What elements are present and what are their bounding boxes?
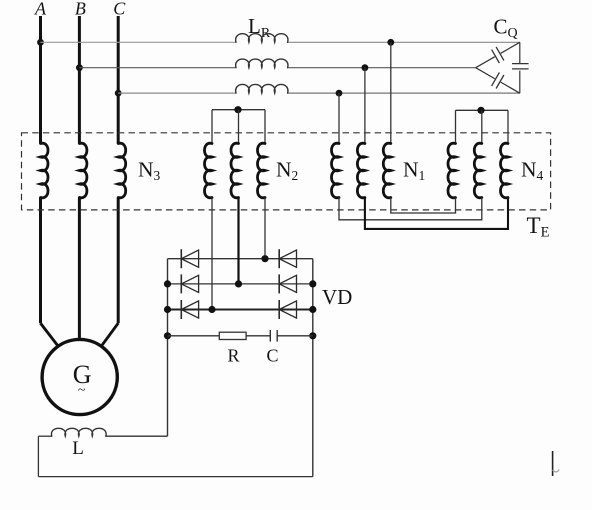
winding N3 phase A	[41, 143, 49, 198]
diode VD5	[180, 300, 182, 319]
wire: link N1w3 to N4w1	[391, 198, 456, 214]
wire: N1 lead 3	[390, 42, 392, 143]
svg-text:~: ~	[78, 383, 86, 398]
wire: N2w3 feed to row1	[264, 198, 266, 259]
node: left rail RC row	[164, 332, 171, 339]
svg-text:B: B	[75, 0, 86, 19]
winding N4 coil 2	[474, 143, 482, 198]
generator G funnel left	[41, 323, 59, 346]
reactor LR phase C	[236, 84, 288, 93]
winding N2 coil 3	[258, 143, 266, 198]
wire: R to C	[246, 335, 270, 337]
node: left rail row2	[164, 280, 171, 287]
winding N2 coil 1	[205, 143, 213, 198]
wire: phase C feeder	[118, 92, 236, 94]
wire: bridge row 3 (bold)	[168, 309, 313, 311]
diode VD1	[180, 249, 182, 268]
diode VD3	[180, 274, 182, 293]
wire: link N1w1 to N4w2	[339, 198, 482, 220]
node: row2 feed	[235, 280, 242, 287]
stray mark	[552, 451, 554, 476]
node: N1 tap on phase C feeder	[336, 90, 343, 97]
svg-text:L: L	[72, 438, 84, 459]
diode VD2	[278, 249, 280, 268]
node: N1 tap on phase A feeder	[387, 39, 394, 46]
wire: L left end down	[38, 435, 51, 437]
capacitor bank CQ lower side	[476, 68, 495, 79]
wire: N4 lead 1 top	[455, 110, 457, 143]
transformer TE dashed enclosure	[22, 133, 551, 210]
node: right rail row3	[309, 306, 316, 313]
wire: left rail to L	[106, 435, 168, 437]
winding N1 coil 1	[332, 143, 340, 198]
winding N1 coil 3	[383, 143, 391, 198]
node: right rail RC row	[309, 332, 316, 339]
generator G funnel right	[101, 323, 118, 346]
capacitor C	[269, 330, 271, 342]
winding N4 coil 1	[448, 143, 456, 198]
winding N2 coil 2	[231, 143, 239, 198]
capacitor bank CQ right side	[519, 42, 521, 63]
capacitor bank CQ triangle upper side	[476, 57, 495, 68]
wire: C to right rail	[277, 335, 313, 337]
wire: bridge row 2	[168, 283, 313, 285]
wire: bottom return	[38, 476, 312, 478]
svg-text:C: C	[266, 346, 278, 366]
phase bus C vertical	[117, 16, 120, 144]
reactor LR phase A	[236, 34, 288, 43]
wire: bridge left rail	[167, 259, 169, 437]
phase bus B vertical	[78, 16, 81, 144]
node: right rail row2	[309, 280, 316, 287]
svg-text:C: C	[113, 0, 126, 19]
wire: bridge row 1	[168, 258, 313, 260]
wire: N2 lead 2 top	[238, 110, 240, 144]
wire: N4 lead 3 top	[507, 110, 509, 143]
svg-text:R: R	[227, 346, 239, 366]
wire: phase A feeder	[41, 41, 237, 43]
winding N3 phase B	[79, 143, 87, 198]
wire: N2 star bar	[212, 109, 265, 111]
wire: N1 lead 1	[338, 93, 340, 143]
wire: N1 lead 2	[364, 68, 366, 144]
node: row3 feed	[208, 306, 215, 313]
wire: N2 lead 1 top	[211, 110, 213, 144]
node: N4 star point	[477, 107, 484, 114]
svg-text:A: A	[34, 0, 47, 19]
wire: link N1w2 to N4w3 (bold)	[365, 198, 508, 229]
phase bus A vertical	[39, 16, 42, 144]
wire: N2w1 feed to row3	[211, 198, 213, 310]
node: left rail row3	[164, 306, 171, 313]
wire: N4 lead 2 top	[481, 110, 483, 143]
svg-text:VD: VD	[322, 285, 352, 309]
node: tap C	[115, 90, 122, 97]
node: N2 star point	[234, 106, 241, 113]
inductor L	[51, 428, 106, 436]
node: N1 tap on phase B feeder	[362, 64, 369, 71]
resistor R	[219, 332, 246, 339]
winding N4 coil 3	[501, 143, 509, 198]
node: tap A	[37, 39, 44, 46]
wire: RC row left segment	[168, 335, 220, 337]
winding N3 phase C	[118, 143, 126, 198]
diode VD6	[278, 300, 280, 319]
wire: N2w2 feed to row2 (bold)	[237, 198, 239, 284]
generator G circle	[42, 339, 117, 414]
node: row1 feed	[261, 255, 268, 262]
wire: N2 lead 3 top	[264, 110, 266, 144]
reactor LR phase B	[236, 59, 288, 68]
wire: phase B feeder	[79, 67, 236, 69]
wire: N4 star bar	[456, 109, 509, 111]
node: tap B	[76, 64, 83, 71]
wire: bridge right rail	[312, 259, 314, 477]
winding N1 coil 2	[357, 143, 365, 198]
diode VD4	[278, 274, 280, 293]
